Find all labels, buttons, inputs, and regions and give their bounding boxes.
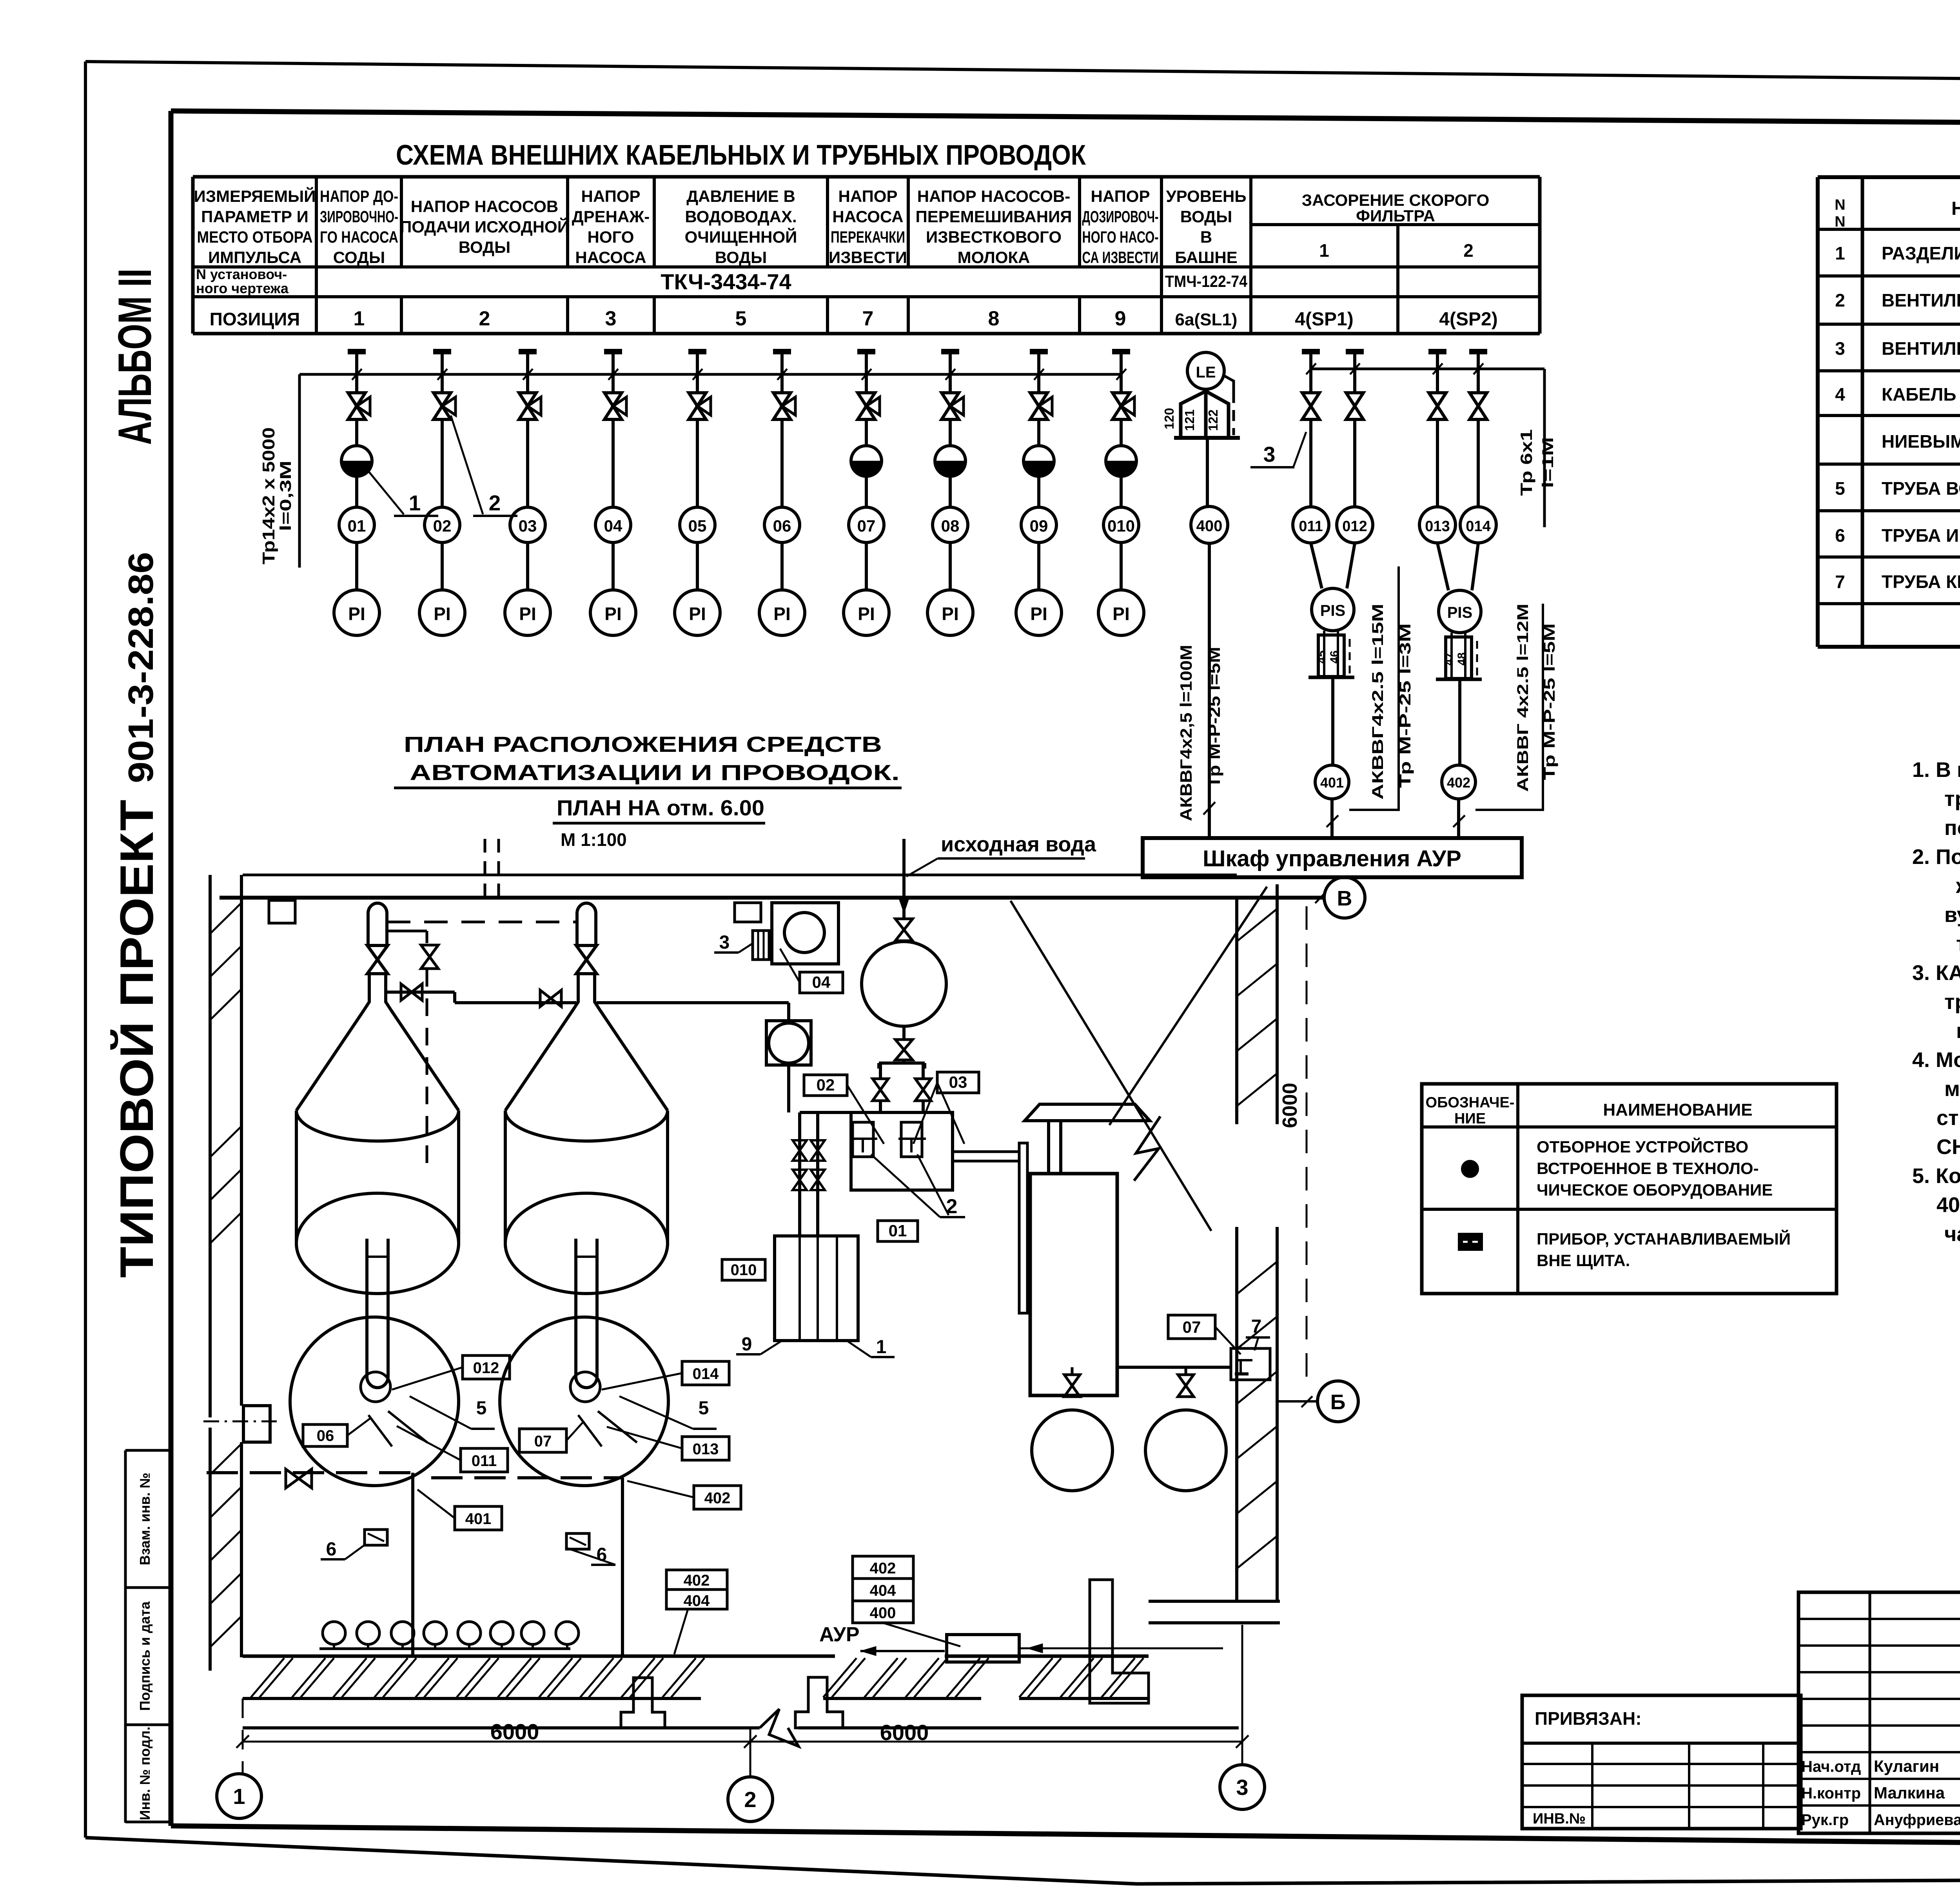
svg-text:Кулагин: Кулагин <box>1874 1757 1939 1775</box>
svg-text:В: В <box>1200 228 1212 246</box>
hopper shell <box>504 1110 507 1242</box>
svg-text:Б: Б <box>1330 1390 1346 1414</box>
gauge PIS 011/012 and cable 401 <box>1311 543 1322 588</box>
AUR cabinet <box>947 1635 1019 1662</box>
svg-text:СА ИЗВЕСТИ: СА ИЗВЕСТИ <box>1082 248 1159 267</box>
svg-text:ИЗВЕСТКОВОГО: ИЗВЕСТКОВОГО <box>926 228 1062 246</box>
chain 07 top tap <box>857 349 875 354</box>
svg-text:6: 6 <box>1835 525 1845 546</box>
label 010 <box>722 1259 765 1280</box>
svg-text:6000: 6000 <box>880 1720 929 1745</box>
svg-text:5: 5 <box>699 1398 709 1419</box>
svg-text:ТКЧ-3434-74: ТКЧ-3434-74 <box>661 269 791 294</box>
svg-text:l=1М: l=1М <box>1539 437 1557 488</box>
svg-text:Взам. инв. №: Взам. инв. № <box>137 1473 153 1565</box>
svg-text:122: 122 <box>1206 409 1220 431</box>
blower unit <box>772 903 838 964</box>
chain 01 line to PI <box>355 543 358 590</box>
chain 04 line to PI <box>612 543 615 590</box>
chain 400 riser <box>1206 438 1209 507</box>
svg-text:1: 1 <box>354 307 365 330</box>
leader 1 <box>365 466 404 514</box>
svg-text:N: N <box>1835 214 1845 230</box>
dashed drop with valve <box>386 930 427 933</box>
chain 04 bus tick <box>608 369 618 380</box>
reactor valves <box>873 1079 888 1101</box>
label 02 <box>804 1075 847 1096</box>
LE hook to dashed line <box>1223 375 1234 392</box>
leader 2 <box>451 416 483 514</box>
chain 010 valve <box>1120 374 1123 393</box>
chain 014 riser <box>1477 419 1480 507</box>
section break zigzag <box>1134 1116 1160 1181</box>
margin strip cells <box>124 1450 127 1823</box>
outer border <box>85 62 1960 84</box>
svg-text:404: 404 <box>870 1582 896 1599</box>
lamp row <box>323 1622 345 1644</box>
svg-text:07: 07 <box>857 517 876 535</box>
dimension line bottom <box>243 1741 1242 1743</box>
chain 07 gauge PI <box>844 590 889 635</box>
chain 09 line to PI <box>1037 543 1040 590</box>
chain 08 top tap <box>941 349 959 354</box>
legend row2 symbol <box>1459 1234 1482 1250</box>
svg-text:011: 011 <box>1299 518 1323 535</box>
dosing tank box <box>775 1236 858 1341</box>
chain 011 valve <box>1309 369 1312 393</box>
chain 05 riser <box>696 419 699 508</box>
chain 013 valve <box>1436 369 1439 393</box>
svg-text:7: 7 <box>1835 572 1845 592</box>
floor break zigzag <box>760 1709 799 1746</box>
svg-text:пола.: пола. <box>1956 1019 1960 1043</box>
chain 03 riser <box>526 419 529 508</box>
label 401 <box>455 1506 502 1530</box>
svg-text:3: 3 <box>719 932 730 953</box>
left wall <box>209 875 212 1417</box>
svg-text:же нумерация кабелей соотв: же нумерация кабелей соответст- <box>1956 874 1960 898</box>
svg-text:012: 012 <box>473 1359 499 1377</box>
filter tank <box>1030 1174 1117 1395</box>
impulse bus line right <box>1311 368 1544 370</box>
svg-text:010: 010 <box>731 1261 757 1279</box>
svg-text:Тр М-Р-25 l=5М: Тр М-Р-25 l=5М <box>1541 623 1558 780</box>
svg-text:ПРИВЯЗАН:: ПРИВЯЗАН: <box>1535 1708 1642 1729</box>
svg-text:06: 06 <box>317 1427 334 1444</box>
svg-text:ВОДЫ: ВОДЫ <box>715 248 767 267</box>
chain 02 gauge PI <box>419 590 465 635</box>
svg-text:ВНЕ ЩИТА.: ВНЕ ЩИТА. <box>1537 1251 1630 1270</box>
svg-text:ПОЗИЦИЯ: ПОЗИЦИЯ <box>210 309 300 329</box>
svg-text:НИЕВЫМИ ЖИЛАМИ: НИЕВЫМИ ЖИЛАМИ <box>1882 431 1960 452</box>
chain 09 position circle <box>1021 507 1056 543</box>
chain 09 membrane separator ball <box>1037 419 1040 446</box>
chain 012 top tap <box>1346 349 1364 354</box>
hopper neck <box>364 974 391 1010</box>
chain 07 position circle <box>849 507 884 543</box>
svg-text:4(SP1): 4(SP1) <box>1295 309 1353 330</box>
svg-text:НИЕ: НИЕ <box>1454 1110 1486 1127</box>
svg-text:03: 03 <box>519 517 537 535</box>
svg-text:Малкина: Малкина <box>1874 1784 1945 1802</box>
svg-text:КАБЕЛЬ КОНТРОЛЬНЫЙ С АЛЮМИ-: КАБЕЛЬ КОНТРОЛЬНЫЙ С АЛЮМИ- <box>1882 384 1960 405</box>
label 402 <box>694 1486 741 1509</box>
svg-text:4(SP2): 4(SP2) <box>1439 309 1497 330</box>
tower base <box>1174 436 1240 440</box>
svg-text:05: 05 <box>688 517 707 535</box>
floor hatched band <box>243 1697 701 1700</box>
label 012 <box>463 1355 510 1379</box>
svg-text:НАПОР НАСОСОВ-: НАПОР НАСОСОВ- <box>917 187 1071 205</box>
cable 401 vertical <box>411 1473 414 1656</box>
svg-text:1. В прямоугольниках указана: 1. В прямоугольниках указана нумерация <box>1912 758 1960 782</box>
svg-text:ФИЛЬТРА: ФИЛЬТРА <box>1356 207 1435 225</box>
svg-text:PIS: PIS <box>1447 604 1472 621</box>
svg-text:014: 014 <box>693 1365 719 1383</box>
leader 3 <box>1294 432 1306 466</box>
pump valves <box>1071 1367 1074 1375</box>
svg-text:013: 013 <box>1425 518 1450 535</box>
svg-text:2: 2 <box>744 1787 756 1812</box>
door pillar pump room <box>1090 1580 1149 1703</box>
svg-text:Подпись и дата: Подпись и дата <box>137 1601 153 1711</box>
svg-text:НАПОР ДО-: НАПОР ДО- <box>320 187 398 205</box>
chain 09 top tap <box>1030 349 1048 354</box>
svg-text:НАПОР НАСОСОВ: НАПОР НАСОСОВ <box>411 197 559 216</box>
control cabinet box <box>1143 838 1522 877</box>
svg-text:РАЗДЕЛИТЕЛЬ МЕМБРАННЫЙ: РАЗДЕЛИТЕЛЬ МЕМБРАННЫЙ <box>1882 243 1960 263</box>
svg-text:ПЛАН НА отм. 6.00: ПЛАН НА отм. 6.00 <box>557 795 764 820</box>
svg-text:N: N <box>1835 197 1845 213</box>
svg-text:400: 400 <box>1196 517 1223 535</box>
svg-text:ВЕНТИЛЬ ЗАПОРНЫЙ: ВЕНТИЛЬ ЗАПОРНЫЙ <box>1882 338 1960 359</box>
svg-text:5: 5 <box>735 307 747 330</box>
svg-text:48: 48 <box>1455 652 1468 665</box>
svg-text:PI: PI <box>689 604 706 624</box>
svg-text:ПЕРЕКАЧКИ: ПЕРЕКАЧКИ <box>831 228 905 246</box>
label 06 <box>303 1424 347 1446</box>
section diagonal B <box>1109 887 1267 1125</box>
svg-text:402: 402 <box>684 1572 710 1589</box>
svg-text:ТМЧ-122-74: ТМЧ-122-74 <box>1165 272 1248 290</box>
svg-text:исходная вода: исходная вода <box>941 833 1096 856</box>
chain 05 valve <box>696 374 699 393</box>
svg-text:ВСТРОЕННОЕ В ТЕХНОЛО-: ВСТРОЕННОЕ В ТЕХНОЛО- <box>1537 1159 1759 1178</box>
right wall <box>1235 898 1238 1124</box>
chain 06 position circle <box>764 507 800 543</box>
svg-text:НАПОР: НАПОР <box>1091 187 1150 205</box>
chain 07 valve <box>865 374 868 393</box>
svg-text:части проекта ЭМ лист 12.: части проекта ЭМ лист 12. <box>1944 1222 1960 1246</box>
svg-text:ВОДЫ: ВОДЫ <box>1180 207 1232 226</box>
svg-text:ИЗВЕСТИ: ИЗВЕСТИ <box>829 248 907 267</box>
hopper tank at x=963 top pipe <box>368 903 387 946</box>
grid bubble 2 <box>728 1777 773 1822</box>
svg-text:Тр М-Р-25 l=3М: Тр М-Р-25 l=3М <box>1397 623 1414 788</box>
floor bottom line <box>243 1726 760 1729</box>
dashed pipe between hoppers <box>387 921 576 924</box>
PIS base bars <box>1308 676 1354 679</box>
chain 010 gauge PI <box>1098 590 1144 635</box>
svg-text:400÷402 учтены в электротехн: 400÷402 учтены в электротехнической <box>1936 1193 1960 1217</box>
chain 08 line to PI <box>949 543 952 590</box>
svg-text:402: 402 <box>870 1560 896 1577</box>
pump square with circle <box>787 1003 790 1021</box>
svg-text:вуют схеме внешних кабел: вуют схеме внешних кабельных и <box>1944 903 1960 927</box>
svg-text:07: 07 <box>534 1433 552 1450</box>
cable 402 vertical <box>621 1478 624 1656</box>
chain 08 valve <box>949 374 952 393</box>
svg-text:НАСОСА: НАСОСА <box>575 248 646 267</box>
grid line V circle <box>1324 877 1365 918</box>
chain 03 bus tick <box>523 369 533 380</box>
svg-text:9: 9 <box>1115 307 1126 330</box>
hopper shell <box>295 1110 298 1242</box>
chain 012 riser <box>1353 419 1356 507</box>
svg-text:400: 400 <box>870 1604 896 1622</box>
chain 05 bus tick <box>693 369 702 380</box>
svg-text:404: 404 <box>684 1592 710 1609</box>
svg-text:N установоч-: N установоч- <box>196 266 287 282</box>
svg-text:АКВВГ 4х2.5 l=12М: АКВВГ 4х2.5 l=12М <box>1514 604 1532 792</box>
privyazan table <box>1522 1695 1801 1829</box>
grid bubble 1 <box>217 1774 261 1818</box>
svg-text:АКВВГ4х2.5 l=15М: АКВВГ4х2.5 l=15М <box>1369 604 1387 800</box>
svg-text:ДОЗИРОВОЧ-: ДОЗИРОВОЧ- <box>1082 207 1159 226</box>
chain 014 position circle <box>1460 507 1496 543</box>
parts table grid <box>1818 175 1960 179</box>
svg-text:402: 402 <box>704 1490 731 1507</box>
chain 06 gauge PI <box>759 590 805 635</box>
chain 03 gauge PI <box>505 590 550 635</box>
grid bubble 3 <box>1220 1765 1265 1809</box>
svg-text:Тр14х2 х 5000: Тр14х2 х 5000 <box>259 427 278 564</box>
hopper neck <box>573 974 600 1010</box>
svg-text:8: 8 <box>988 307 1000 330</box>
svg-text:PI: PI <box>773 604 790 624</box>
section diagonal A <box>1011 901 1211 1231</box>
tower symbol <box>1181 391 1229 438</box>
bus right drop Tr6x1 <box>1543 369 1546 527</box>
impulse bus line left <box>299 373 1121 376</box>
inner frame <box>171 111 1960 126</box>
svg-text:6: 6 <box>326 1539 337 1560</box>
chain 06 bus tick <box>777 369 787 380</box>
chain 07 line to PI <box>865 543 868 590</box>
chain 014 valve <box>1477 369 1480 393</box>
chain 02 riser <box>441 419 444 508</box>
svg-text:PI: PI <box>519 604 536 624</box>
svg-text:901-3-228.86: 901-3-228.86 <box>122 552 161 783</box>
svg-text:09: 09 <box>1030 517 1048 535</box>
svg-text:НОГО НАСО-: НОГО НАСО- <box>1082 228 1159 246</box>
chain 08 gauge PI <box>927 590 973 635</box>
gauge PIS 013/014 and cable 402 <box>1437 543 1448 590</box>
svg-text:ТРУБА ИМПУЛЬСНАЯ: ТРУБА ИМПУЛЬСНАЯ <box>1882 525 1960 546</box>
svg-text:ЗИРОВОЧНО-: ЗИРОВОЧНО- <box>320 207 398 226</box>
svg-text:04: 04 <box>812 973 831 991</box>
svg-text:PI: PI <box>1112 604 1129 624</box>
svg-text:03: 03 <box>949 1073 967 1091</box>
wall channel <box>1019 1143 1027 1313</box>
svg-text:НАПОР: НАПОР <box>581 187 641 205</box>
svg-text:PI: PI <box>434 604 450 624</box>
svg-text:4: 4 <box>1835 384 1845 405</box>
svg-text:3. КАБЕЛИ поз. 401 и 402: 3. КАБЕЛИ поз. 401 и 402 проложить в <box>1912 961 1960 985</box>
membrane unit box <box>851 1112 953 1190</box>
chain 03 line to PI <box>526 543 529 590</box>
svg-text:УРОВЕНЬ: УРОВЕНЬ <box>1166 187 1246 205</box>
chain 04 position circle <box>595 507 631 543</box>
cable 402 leader line <box>1475 604 1543 810</box>
svg-text:014: 014 <box>1466 518 1490 535</box>
chain 09 gauge PI <box>1016 590 1062 635</box>
dim 6000 vertical dashed <box>1306 906 1308 1380</box>
svg-text:труб и кабелей , под полкой: труб и кабелей , под полкой линии-выноск… <box>1944 787 1960 811</box>
svg-text:2: 2 <box>1463 240 1474 261</box>
air separator circle <box>903 941 906 942</box>
svg-text:ДАВЛЕНИЕ В: ДАВЛЕНИЕ В <box>686 187 795 205</box>
hopper bottom pipe <box>367 1239 388 1388</box>
bottom device tank2 <box>566 1533 589 1549</box>
left wall niche box <box>243 1406 270 1442</box>
svg-text:ТИПОВОЙ ПРОЕКТ: ТИПОВОЙ ПРОЕКТ <box>110 800 163 1278</box>
svg-text:Ануфриева: Ануфриева <box>1874 1811 1960 1829</box>
chain 010 position circle <box>1103 507 1139 543</box>
reactor top bracket <box>902 1060 906 1063</box>
svg-text:ЧИЧЕСКОЕ ОБОРУДОВАНИЕ: ЧИЧЕСКОЕ ОБОРУДОВАНИЕ <box>1537 1181 1773 1199</box>
level gauge LE <box>1187 352 1224 389</box>
chain 05 top tap <box>688 349 706 354</box>
svg-text:ПАРАМЕТР И: ПАРАМЕТР И <box>201 207 309 226</box>
svg-text:121: 121 <box>1182 409 1197 431</box>
chain 400 circle <box>1191 506 1228 543</box>
chain 08 bus tick <box>946 369 955 380</box>
svg-text:010: 010 <box>1107 517 1135 535</box>
chain 01 position circle <box>339 507 374 543</box>
svg-text:6000: 6000 <box>1279 1083 1301 1128</box>
pump circle 2 <box>1145 1410 1226 1491</box>
door pillar right <box>795 1677 843 1728</box>
svg-text:LE: LE <box>1196 364 1216 381</box>
tank plan circle at 955 <box>290 1317 459 1486</box>
svg-text:Рук.гр: Рук.гр <box>1801 1811 1849 1829</box>
svg-text:позиций.: позиций. <box>1944 816 1960 840</box>
chain 01 top tap <box>348 349 366 354</box>
svg-text:ГО НАСОСА: ГО НАСОСА <box>320 228 398 246</box>
svg-text:1: 1 <box>1319 240 1329 261</box>
svg-text:401: 401 <box>1320 775 1344 791</box>
svg-text:ИМПУЛЬСА: ИМПУЛЬСА <box>208 248 301 267</box>
svg-text:7: 7 <box>862 307 874 330</box>
labels 402 404 stack <box>666 1570 727 1609</box>
chain 05 gauge PI <box>675 590 720 635</box>
chain 01 gauge PI <box>334 590 379 635</box>
svg-text:2: 2 <box>489 491 501 515</box>
svg-text:АУР: АУР <box>819 1623 860 1646</box>
svg-text:01: 01 <box>348 517 366 535</box>
sensor device 3 <box>753 931 769 960</box>
svg-text:1: 1 <box>233 1784 245 1809</box>
right wall bottom cap <box>1149 1600 1280 1603</box>
label 03 <box>937 1072 979 1093</box>
chain 010 bus tick <box>1116 369 1126 380</box>
svg-text:НАИМЕНОВАНИЕ: НАИМЕНОВАНИЕ <box>1603 1100 1752 1120</box>
duct dashes through wall <box>484 839 486 898</box>
svg-text:ПЛАН РАСПОЛОЖЕНИЯ СРЕДСТВ: ПЛАН РАСПОЛОЖЕНИЯ СРЕДСТВ <box>404 732 882 757</box>
inlet pipe <box>902 839 906 918</box>
grid line B circle <box>1318 1381 1358 1422</box>
chain 011 riser <box>1309 419 1312 507</box>
hopper cone <box>296 1010 364 1110</box>
svg-text:6а(SL1): 6а(SL1) <box>1175 310 1238 329</box>
svg-text:МОЛОКА: МОЛОКА <box>958 248 1030 267</box>
svg-text:5: 5 <box>1835 478 1845 499</box>
svg-text:02: 02 <box>817 1076 835 1094</box>
svg-text:4. Монтаж приборов и средст: 4. Монтаж приборов и средств авто- <box>1912 1048 1960 1072</box>
floor top line <box>243 1655 835 1658</box>
cable 400 down <box>1208 543 1211 810</box>
svg-text:ИЗМЕРЯЕМЫЙ: ИЗМЕРЯЕМЫЙ <box>194 187 316 205</box>
svg-text:АВТОМАТИЗАЦИИ И ПРОВОДОК: АВТОМАТИЗАЦИИ И ПРОВОДОК. <box>410 760 900 785</box>
svg-text:ТРУБА ВОДОГАЗОПРОВОДНАЯ: ТРУБА ВОДОГАЗОПРОВОДНАЯ <box>1882 478 1960 499</box>
svg-text:ного чертежа: ного чертежа <box>196 280 289 296</box>
tank plan circle at 1490 <box>500 1317 668 1486</box>
svg-text:06: 06 <box>773 517 791 535</box>
chain 010 top tap <box>1112 349 1130 354</box>
label 013 <box>682 1437 729 1460</box>
chain 04 gauge PI <box>590 590 636 635</box>
chain 01 valve <box>355 374 358 393</box>
svg-text:PI: PI <box>604 604 621 624</box>
svg-text:01: 01 <box>889 1221 907 1240</box>
svg-text:ВОДЫ: ВОДЫ <box>459 238 510 256</box>
cable 401 leader line <box>1349 566 1399 810</box>
svg-text:PI: PI <box>858 604 875 624</box>
svg-text:ПРИБОР, УСТАНАВЛИВАЕМЫЙ: ПРИБОР, УСТАНАВЛИВАЕМЫЙ <box>1537 1229 1791 1248</box>
hopper bottom pipe <box>576 1239 597 1388</box>
svg-text:ОЧИЩЕННОЙ: ОЧИЩЕННОЙ <box>685 227 797 246</box>
chain 05 line to PI <box>696 543 699 590</box>
chain 012 valve <box>1353 369 1356 393</box>
hopper connect pipe <box>386 991 455 994</box>
chain 06 riser <box>780 419 784 508</box>
svg-text:1: 1 <box>409 491 421 515</box>
svg-text:3: 3 <box>1263 442 1276 466</box>
svg-text:3: 3 <box>1835 338 1845 359</box>
svg-text:ДРЕНАЖ-: ДРЕНАЖ- <box>572 207 650 226</box>
svg-text:013: 013 <box>693 1441 719 1458</box>
label 07 tank2 <box>519 1429 566 1452</box>
svg-text:ОТБОРНОЕ УСТРОЙСТВО: ОТБОРНОЕ УСТРОЙСТВО <box>1537 1137 1748 1156</box>
svg-text:7: 7 <box>1251 1316 1262 1337</box>
svg-text:ВЕНТИЛЬ ДЛЯ МАНОМЕТРОВ: ВЕНТИЛЬ ДЛЯ МАНОМЕТРОВ <box>1882 290 1960 310</box>
filter feed pipe <box>1047 1121 1050 1174</box>
svg-text:БАШНЕ: БАШНЕ <box>1175 248 1237 267</box>
chain 013 position circle <box>1419 507 1455 543</box>
svg-text:04: 04 <box>604 517 622 535</box>
svg-text:Тр М-Р-25 l=5М: Тр М-Р-25 l=5М <box>1205 647 1223 788</box>
hopper tank at x=1496 top pipe <box>577 903 596 946</box>
chain 07 membrane separator ball <box>865 419 868 446</box>
chain 02 top tap <box>433 349 451 354</box>
svg-text:трубных проводок.: трубных проводок. <box>1956 932 1960 956</box>
svg-text:АКВВГ4х2,5 l=100М: АКВВГ4х2,5 l=100М <box>1177 645 1195 821</box>
door pillar left <box>621 1678 665 1728</box>
svg-text:120: 120 <box>1162 408 1176 429</box>
svg-text:3: 3 <box>605 307 617 330</box>
svg-text:02: 02 <box>433 517 452 535</box>
